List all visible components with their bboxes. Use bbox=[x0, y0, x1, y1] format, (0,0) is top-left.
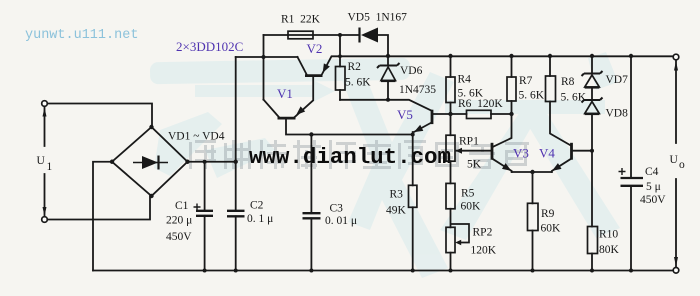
transistor V1 bbox=[278, 107, 305, 118]
wire zener chain VD7 VD8 to R10 bbox=[591, 56, 593, 271]
svg-text:C1: C1 bbox=[175, 200, 189, 212]
svg-text:450V: 450V bbox=[166, 231, 192, 243]
svg-text:V1: V1 bbox=[277, 86, 293, 101]
junction bbox=[386, 98, 390, 102]
junction bbox=[234, 160, 238, 164]
wire R2 bottom to V5 collector bbox=[340, 100, 431, 111]
wire V4 emitter bbox=[552, 159, 571, 172]
junction bbox=[185, 160, 189, 164]
wire emitter common bbox=[512, 171, 552, 173]
resistor R8 bbox=[546, 76, 556, 102]
wire V5 base lead bbox=[433, 113, 451, 115]
resistor R7 bbox=[507, 77, 516, 101]
junction bbox=[629, 269, 633, 273]
wire RP1 wiper to V3 base bbox=[457, 150, 492, 152]
junction bbox=[234, 269, 238, 273]
wire bridge plus lead bbox=[188, 161, 236, 163]
svg-text:o: o bbox=[679, 159, 685, 171]
zener VD7 bbox=[582, 71, 603, 87]
svg-text:5. 6K: 5. 6K bbox=[561, 92, 587, 104]
capacitor C3 plates bbox=[303, 213, 321, 218]
junction bbox=[411, 269, 415, 273]
svg-text:VD5 1N167: VD5 1N167 bbox=[348, 12, 408, 24]
input terminal top bbox=[42, 101, 48, 117]
wire V4 base lead bbox=[573, 150, 593, 152]
wire C4 leads bbox=[630, 56, 632, 271]
svg-text:U: U bbox=[670, 154, 679, 166]
junction bbox=[531, 269, 535, 273]
wire output plus rail bbox=[340, 55, 673, 57]
wire V5 emitter down to R3 bbox=[412, 132, 414, 271]
junction bbox=[338, 54, 342, 58]
wire R2 branch bbox=[339, 35, 341, 100]
junction bbox=[509, 54, 513, 58]
wire R7 leads and V3 collector bbox=[493, 56, 512, 147]
potentiometer RP2 wiper link bbox=[451, 224, 470, 243]
junction bbox=[338, 33, 342, 37]
capacitor C1 plates bbox=[196, 211, 213, 216]
svg-text:U: U bbox=[37, 155, 46, 167]
svg-text:R8: R8 bbox=[561, 76, 575, 88]
svg-text:C4: C4 bbox=[645, 166, 659, 178]
wire V3 emitter bbox=[493, 159, 512, 172]
junction bbox=[110, 160, 114, 164]
junction bbox=[309, 132, 313, 136]
svg-text:5K: 5K bbox=[467, 159, 482, 171]
wire V2 collector lead bbox=[298, 57, 307, 74]
svg-text:R2: R2 bbox=[348, 61, 362, 73]
svg-text:V3: V3 bbox=[513, 146, 529, 161]
junction bbox=[262, 55, 266, 59]
resistor R6 bbox=[467, 110, 492, 118]
wire V2 base to V1 emitter bbox=[295, 77, 314, 117]
potentiometer RP1 wiper arrowhead bbox=[456, 148, 463, 154]
wire C3 leads bbox=[310, 135, 312, 271]
wire collector bus V1 V2 bbox=[236, 56, 298, 58]
junction bbox=[509, 112, 513, 116]
resistor R5 bbox=[446, 183, 455, 208]
junction bbox=[309, 269, 313, 273]
svg-text:60K: 60K bbox=[541, 223, 562, 235]
potentiometer RP2 wiper arrowhead bbox=[455, 240, 461, 246]
svg-text:450V: 450V bbox=[640, 194, 666, 206]
input terminal bottom bbox=[42, 207, 48, 222]
junction bbox=[448, 54, 452, 58]
svg-text:R3: R3 bbox=[390, 189, 404, 201]
wire output terminal column bbox=[675, 60, 677, 267]
transistor V2 bbox=[305, 64, 329, 76]
wire top bus with R1 and VD5 bbox=[264, 34, 360, 36]
transistor V3 bbox=[492, 143, 510, 170]
bridge rectifier VD1-VD4 bbox=[112, 127, 188, 196]
svg-text:yunwt.u111.net: yunwt.u111.net bbox=[25, 28, 138, 43]
junction bbox=[203, 269, 207, 273]
junction bbox=[548, 54, 552, 58]
junction bbox=[590, 149, 594, 153]
transistor V5 bbox=[414, 110, 433, 133]
wire R8 leads and V4 collector bbox=[550, 56, 571, 145]
svg-text:VD8: VD8 bbox=[606, 108, 629, 120]
wire input left column bbox=[44, 106, 46, 216]
resistor R2 bbox=[336, 67, 346, 91]
resistor R1 bbox=[288, 31, 313, 39]
zener VD6 bbox=[377, 63, 400, 81]
junction bbox=[386, 54, 390, 58]
svg-text:VD1 ~ VD4: VD1 ~ VD4 bbox=[168, 131, 225, 143]
svg-text:C3: C3 bbox=[330, 203, 344, 215]
svg-text:R5: R5 bbox=[461, 188, 475, 200]
potentiometer RP1 body bbox=[446, 135, 455, 161]
svg-text:2×3DD102C: 2×3DD102C bbox=[176, 39, 243, 54]
junction bbox=[449, 269, 453, 273]
zener VD8 bbox=[582, 98, 603, 114]
wire V2 emitter lead bbox=[322, 56, 340, 74]
svg-text:C2: C2 bbox=[250, 200, 264, 212]
svg-text:60K: 60K bbox=[461, 201, 482, 213]
output terminal top bbox=[673, 54, 679, 70]
wire bridge minus leg bbox=[93, 162, 112, 271]
resistor R3 bbox=[409, 185, 417, 207]
svg-text:www.dianlut.com: www.dianlut.com bbox=[249, 144, 451, 170]
svg-text:VD6: VD6 bbox=[400, 65, 423, 77]
svg-text:R4: R4 bbox=[458, 74, 472, 86]
wire C1 leads bbox=[204, 162, 206, 271]
svg-text:120K: 120K bbox=[471, 245, 497, 257]
junction bbox=[629, 54, 633, 58]
svg-text:5. 6K: 5. 6K bbox=[519, 90, 545, 102]
junction bbox=[149, 194, 153, 198]
junction bbox=[411, 133, 415, 137]
svg-text:80K: 80K bbox=[599, 244, 620, 256]
svg-text:V5: V5 bbox=[397, 107, 413, 122]
junction bbox=[203, 160, 207, 164]
junction bbox=[590, 54, 594, 58]
wire V1 collector riser bbox=[263, 35, 265, 100]
wire ground rail bbox=[93, 270, 673, 272]
svg-text:0. 01 μ: 0. 01 μ bbox=[325, 215, 357, 227]
svg-text:220 μ: 220 μ bbox=[166, 215, 192, 227]
resistor R4 bbox=[446, 77, 455, 103]
capacitor C4 plates bbox=[621, 178, 644, 186]
wire input top lead bbox=[47, 104, 152, 128]
transistor V4 bbox=[553, 143, 571, 170]
capacitor C2 plates bbox=[227, 211, 245, 217]
wire VD6 leads bbox=[387, 56, 389, 100]
wire V1 collector lead bbox=[264, 100, 280, 118]
junction bbox=[448, 112, 452, 116]
svg-text:49K: 49K bbox=[386, 205, 407, 217]
junction bbox=[149, 125, 153, 129]
capacitor C1 plus sign bbox=[194, 204, 201, 211]
wire C2 column bbox=[235, 57, 237, 271]
svg-text:V4: V4 bbox=[539, 146, 555, 161]
svg-text:R6 120K: R6 120K bbox=[458, 98, 503, 110]
svg-text:5 μ: 5 μ bbox=[646, 181, 661, 193]
wire RP1 R5 RP2 chain bbox=[450, 114, 452, 271]
svg-text:0. 1 μ: 0. 1 μ bbox=[247, 213, 273, 225]
wire VD5 right lead bbox=[378, 35, 388, 56]
svg-text:1N4735: 1N4735 bbox=[399, 84, 436, 96]
svg-text:1: 1 bbox=[47, 161, 53, 173]
potentiometer RP2 body bbox=[446, 227, 455, 252]
svg-text:R10: R10 bbox=[599, 229, 618, 241]
capacitor C4 plus sign bbox=[619, 168, 626, 175]
junction bbox=[530, 170, 534, 174]
wire input bottom lead bbox=[47, 196, 150, 220]
junction bbox=[590, 269, 594, 273]
svg-text:RP2: RP2 bbox=[473, 227, 493, 239]
svg-text:5. 6K: 5. 6K bbox=[345, 77, 371, 89]
svg-text:RP1: RP1 bbox=[459, 136, 479, 148]
svg-text:R7: R7 bbox=[519, 75, 533, 87]
wire R9 leads bbox=[532, 172, 534, 271]
wire V1 base to V5 emitter bbox=[286, 119, 413, 135]
diode VD5 bbox=[360, 28, 379, 43]
svg-text:VD7: VD7 bbox=[606, 74, 629, 86]
svg-text:R9: R9 bbox=[541, 208, 555, 220]
output terminal bottom bbox=[673, 257, 679, 273]
resistor R9 bbox=[528, 203, 539, 230]
resistor R10 bbox=[588, 227, 598, 254]
svg-text:R1 22K: R1 22K bbox=[281, 14, 321, 26]
wire R4 leads bbox=[450, 56, 452, 114]
wire R6 leads bbox=[451, 113, 512, 115]
svg-text:V2: V2 bbox=[307, 41, 323, 56]
